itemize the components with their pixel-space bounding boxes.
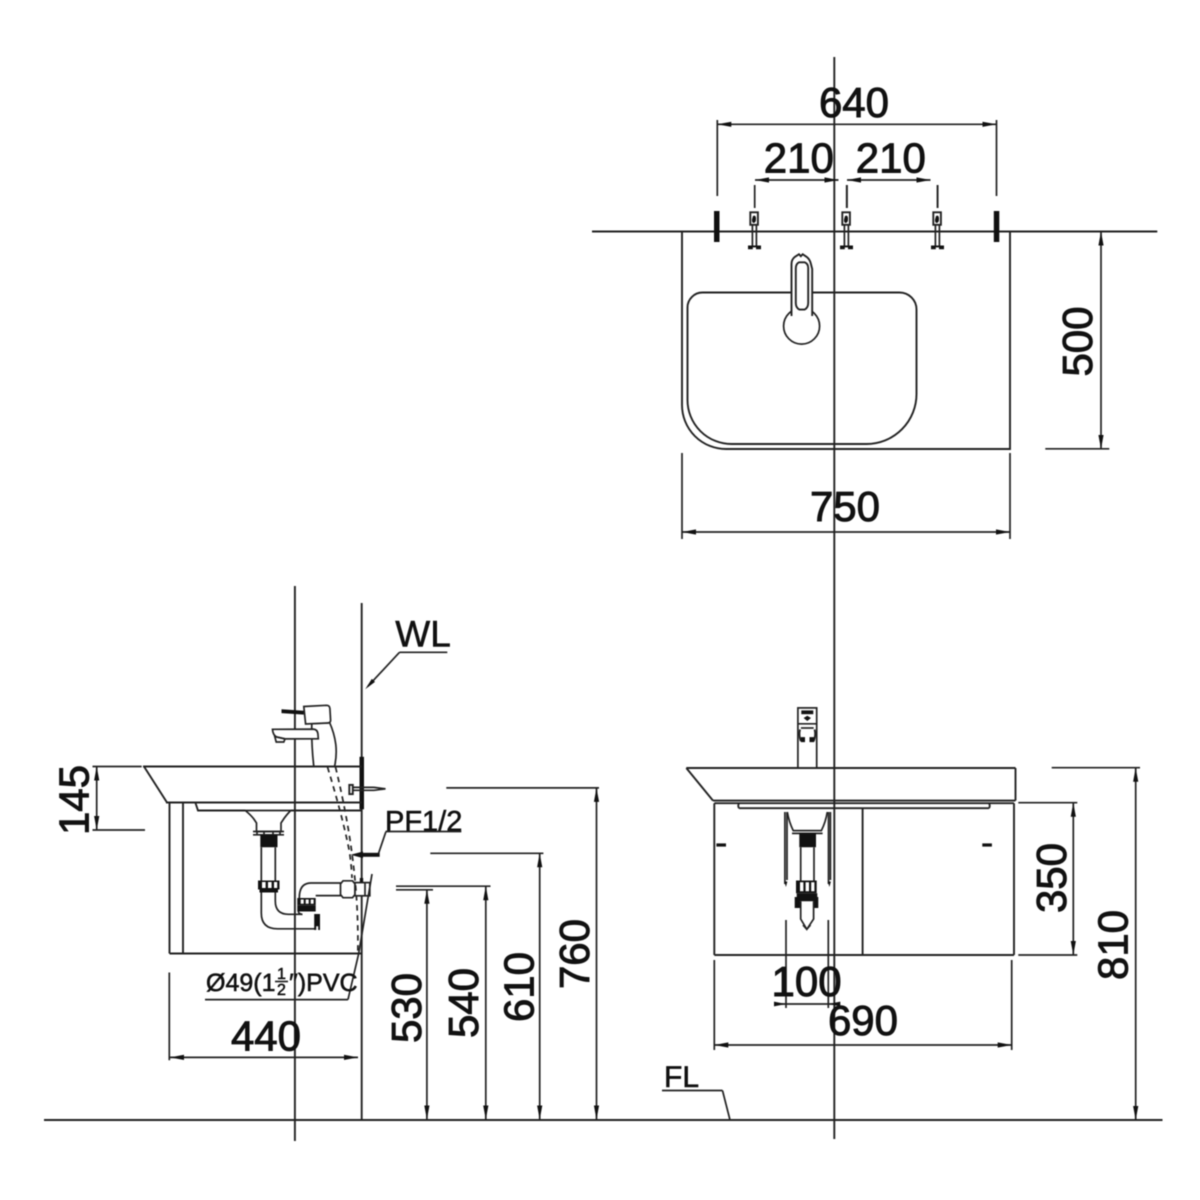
svg-text:440: 440 — [231, 1013, 301, 1060]
svg-text:2: 2 — [277, 982, 286, 999]
svg-text:Ø49(1: Ø49(1 — [206, 969, 275, 997]
svg-text:640: 640 — [819, 79, 889, 126]
svg-text:760: 760 — [551, 919, 598, 989]
svg-text:145: 145 — [51, 765, 98, 835]
svg-text:610: 610 — [496, 952, 543, 1022]
svg-text:750: 750 — [810, 483, 880, 530]
svg-text:210: 210 — [856, 135, 926, 182]
svg-text:PF1/2: PF1/2 — [385, 806, 462, 838]
svg-text:″)PVC: ″)PVC — [289, 969, 358, 997]
svg-text:210: 210 — [764, 135, 834, 182]
svg-text:500: 500 — [1054, 306, 1101, 376]
svg-text:WL: WL — [395, 614, 451, 655]
svg-text:1: 1 — [277, 966, 286, 983]
svg-text:690: 690 — [828, 997, 898, 1044]
svg-text:810: 810 — [1090, 910, 1137, 980]
svg-text:FL: FL — [664, 1061, 699, 1094]
svg-text:530: 530 — [383, 973, 430, 1043]
svg-text:540: 540 — [440, 968, 487, 1038]
svg-text:350: 350 — [1028, 843, 1075, 913]
